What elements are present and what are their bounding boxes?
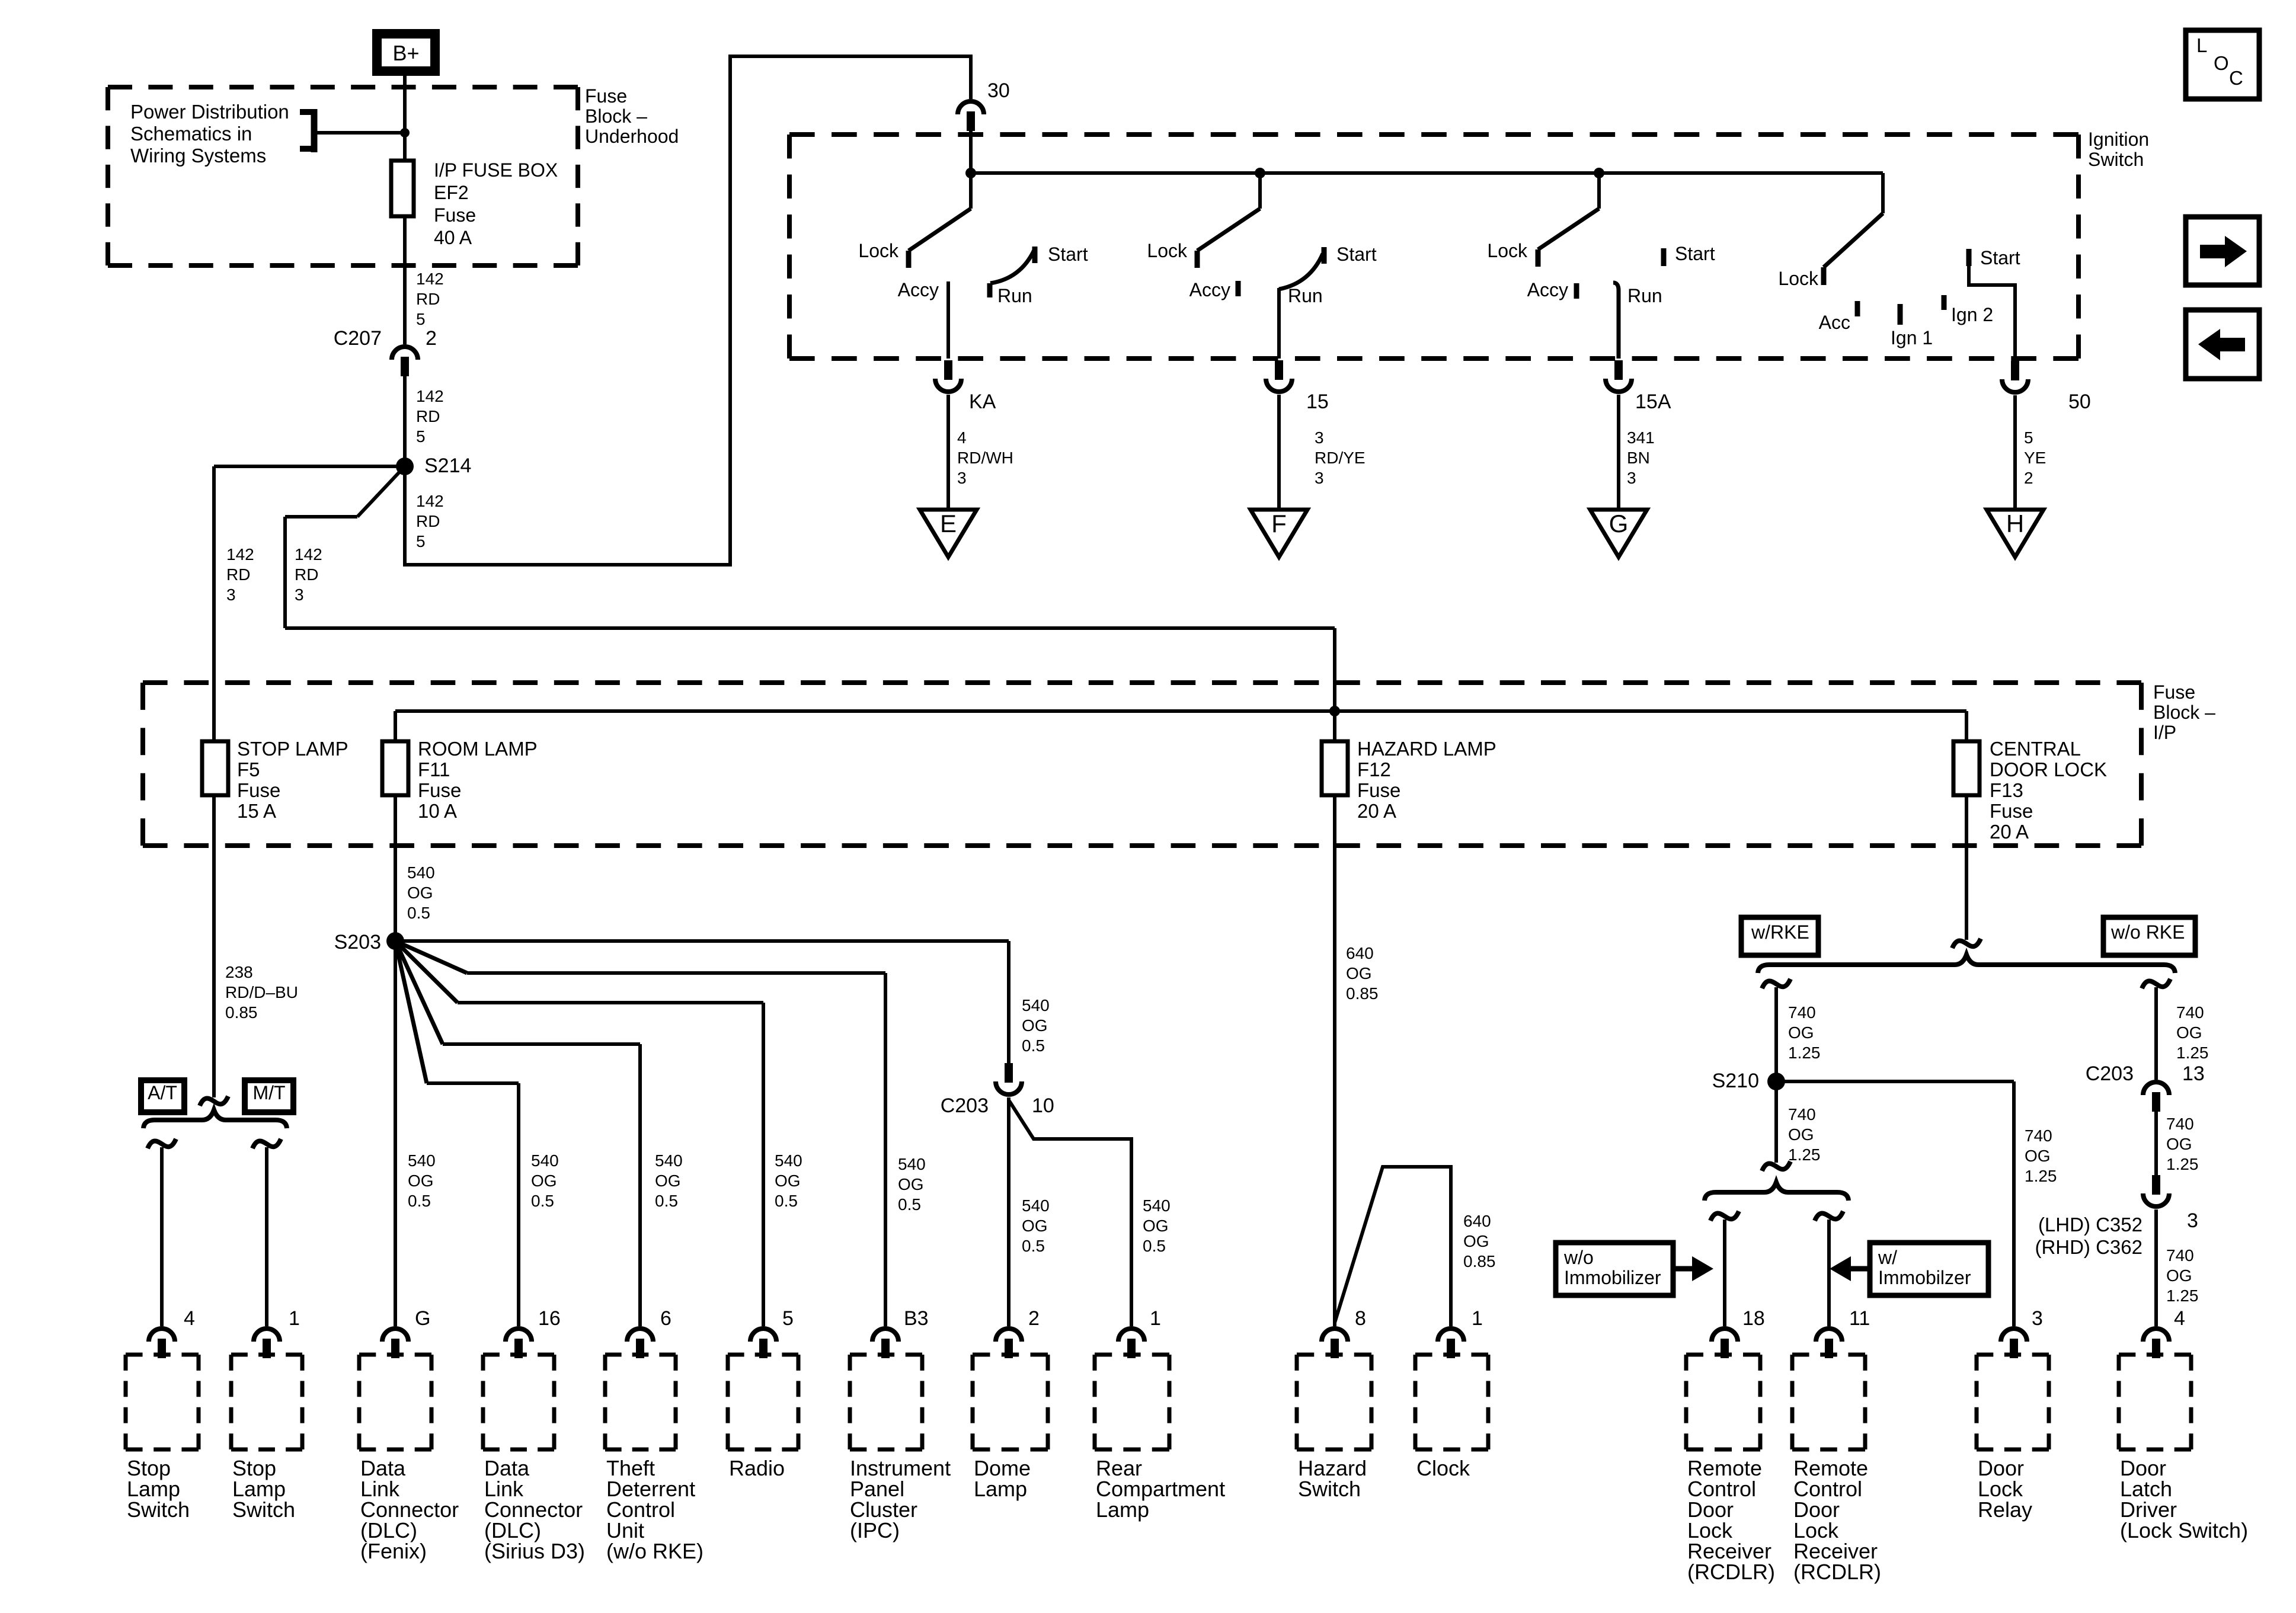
svg-text:RD/YE: RD/YE	[1315, 449, 1366, 467]
svg-text:0.5: 0.5	[408, 1192, 431, 1210]
svg-text:540: 540	[408, 1151, 436, 1170]
svg-text:142: 142	[416, 270, 444, 288]
svg-text:F12: F12	[1357, 759, 1391, 780]
svg-text:Lock: Lock	[1487, 240, 1528, 261]
svg-text:Acc: Acc	[1819, 312, 1850, 333]
svg-text:3: 3	[957, 469, 967, 487]
svg-text:2: 2	[1028, 1307, 1040, 1330]
svg-text:Lamp: Lamp	[1096, 1497, 1149, 1522]
svg-text:O: O	[2214, 52, 2229, 74]
svg-text:(Lock Switch): (Lock Switch)	[2120, 1518, 2248, 1542]
svg-text:142: 142	[416, 387, 444, 405]
svg-text:1.25: 1.25	[2166, 1286, 2199, 1305]
svg-text:OG: OG	[2166, 1135, 2192, 1153]
svg-text:(LHD) C352: (LHD) C352	[2038, 1214, 2142, 1236]
svg-text:(RCDLR): (RCDLR)	[1793, 1560, 1881, 1584]
svg-text:F5: F5	[237, 759, 260, 780]
svg-text:S214: S214	[424, 455, 471, 477]
svg-text:Switch: Switch	[1298, 1477, 1361, 1501]
svg-text:40 A: 40 A	[434, 227, 472, 248]
svg-text:Wiring Systems: Wiring Systems	[130, 145, 266, 167]
svg-text:Fuse: Fuse	[1357, 779, 1400, 801]
svg-text:5: 5	[2024, 428, 2033, 447]
svg-text:S210: S210	[1712, 1070, 1759, 1092]
svg-text:18: 18	[1742, 1307, 1765, 1330]
svg-text:0.5: 0.5	[655, 1192, 678, 1210]
svg-text:Relay: Relay	[1978, 1497, 2032, 1522]
svg-text:OG: OG	[1346, 964, 1372, 982]
svg-text:(Sirius D3): (Sirius D3)	[484, 1539, 585, 1563]
svg-text:4: 4	[957, 428, 967, 447]
svg-text:11: 11	[1849, 1307, 1870, 1330]
svg-text:EF2: EF2	[434, 182, 469, 203]
svg-text:OG: OG	[531, 1172, 557, 1190]
svg-text:L: L	[2196, 34, 2207, 56]
svg-text:OG: OG	[1788, 1125, 1814, 1144]
svg-text:Start: Start	[1980, 247, 2020, 268]
svg-text:Switch: Switch	[127, 1497, 190, 1522]
svg-text:Radio: Radio	[729, 1456, 785, 1480]
svg-text:Accy: Accy	[1527, 279, 1568, 300]
svg-text:F13: F13	[1990, 779, 2023, 801]
svg-text:10: 10	[1032, 1094, 1054, 1117]
svg-text:Schematics in: Schematics in	[130, 123, 252, 145]
svg-text:(RCDLR): (RCDLR)	[1687, 1560, 1775, 1584]
svg-text:OG: OG	[2176, 1023, 2202, 1042]
svg-text:1: 1	[1150, 1307, 1161, 1330]
svg-text:540: 540	[1022, 1196, 1050, 1215]
svg-text:RD: RD	[226, 565, 250, 584]
svg-text:RD/D–BU: RD/D–BU	[225, 983, 298, 1001]
svg-text:Fuse: Fuse	[418, 779, 461, 801]
svg-text:5: 5	[416, 310, 426, 328]
svg-text:F: F	[1271, 510, 1287, 537]
svg-text:2: 2	[2024, 469, 2033, 487]
svg-text:Start: Start	[1675, 243, 1715, 264]
svg-text:20 A: 20 A	[1990, 821, 2029, 843]
svg-text:142: 142	[416, 492, 444, 510]
svg-text:H: H	[2006, 510, 2024, 537]
svg-text:OG: OG	[775, 1172, 801, 1190]
svg-text:4: 4	[184, 1307, 195, 1330]
svg-text:15A: 15A	[1635, 391, 1671, 413]
svg-text:Run: Run	[1627, 285, 1662, 306]
svg-text:6: 6	[660, 1307, 671, 1330]
svg-text:Fuse: Fuse	[434, 204, 476, 226]
svg-text:Ignition: Ignition	[2088, 129, 2149, 150]
svg-text:S203: S203	[334, 931, 381, 953]
svg-text:5: 5	[416, 532, 426, 551]
svg-text:OG: OG	[1143, 1217, 1169, 1235]
svg-text:740: 740	[1788, 1003, 1816, 1022]
svg-text:OG: OG	[1022, 1016, 1048, 1035]
svg-text:540: 540	[531, 1151, 559, 1170]
svg-text:KA: KA	[969, 391, 996, 413]
svg-text:G: G	[1609, 510, 1629, 537]
svg-text:Clock: Clock	[1416, 1456, 1470, 1480]
svg-text:3: 3	[226, 585, 236, 604]
svg-text:2: 2	[426, 327, 437, 350]
svg-text:1.25: 1.25	[2166, 1155, 2199, 1173]
svg-text:Immobilizer: Immobilizer	[1564, 1267, 1661, 1288]
svg-text:C203: C203	[941, 1094, 989, 1117]
svg-text:740: 740	[2166, 1115, 2194, 1133]
svg-text:341: 341	[1627, 428, 1655, 447]
svg-text:0.5: 0.5	[531, 1192, 554, 1210]
svg-text:640: 640	[1346, 944, 1374, 962]
svg-text:0.5: 0.5	[1143, 1237, 1166, 1255]
svg-text:0.5: 0.5	[407, 904, 430, 922]
svg-text:1.25: 1.25	[2176, 1044, 2209, 1062]
svg-text:3: 3	[1627, 469, 1636, 487]
svg-text:w/RKE: w/RKE	[1751, 921, 1809, 943]
svg-text:540: 540	[407, 863, 435, 882]
svg-text:1.25: 1.25	[1788, 1145, 1821, 1164]
svg-text:C: C	[2229, 67, 2243, 89]
svg-text:0.5: 0.5	[775, 1192, 798, 1210]
svg-text:(IPC): (IPC)	[850, 1518, 900, 1542]
svg-text:OG: OG	[2025, 1147, 2051, 1165]
svg-text:OG: OG	[898, 1175, 924, 1193]
svg-text:Run: Run	[997, 285, 1032, 306]
svg-text:Ign 1: Ign 1	[1891, 327, 1933, 348]
svg-text:20 A: 20 A	[1357, 800, 1396, 822]
svg-text:15: 15	[1306, 391, 1329, 413]
svg-text:w/o RKE: w/o RKE	[2110, 921, 2185, 943]
svg-text:5: 5	[416, 427, 426, 446]
svg-text:Ign 2: Ign 2	[1951, 304, 1993, 325]
svg-text:740: 740	[2166, 1246, 2194, 1265]
svg-text:F11: F11	[418, 759, 450, 780]
svg-text:540: 540	[655, 1151, 683, 1170]
svg-text:Fuse: Fuse	[237, 779, 280, 801]
svg-text:540: 540	[775, 1151, 802, 1170]
svg-text:3: 3	[1315, 428, 1324, 447]
svg-text:STOP LAMP: STOP LAMP	[237, 738, 348, 760]
svg-text:BN: BN	[1627, 449, 1650, 467]
svg-text:0.5: 0.5	[1022, 1036, 1045, 1055]
svg-text:Lock: Lock	[1778, 268, 1819, 289]
svg-text:I/P: I/P	[2153, 722, 2176, 743]
svg-text:13: 13	[2182, 1062, 2205, 1085]
svg-text:540: 540	[1022, 996, 1050, 1014]
svg-text:RD/WH: RD/WH	[957, 449, 1013, 467]
svg-text:OG: OG	[1022, 1217, 1048, 1235]
svg-text:540: 540	[1143, 1196, 1171, 1215]
svg-text:OG: OG	[1463, 1232, 1489, 1250]
svg-text:G: G	[415, 1307, 430, 1330]
svg-text:Accy: Accy	[898, 279, 939, 300]
svg-text:OG: OG	[407, 884, 433, 902]
svg-text:740: 740	[1788, 1105, 1816, 1124]
svg-text:3: 3	[295, 585, 304, 604]
svg-text:1: 1	[289, 1307, 300, 1330]
svg-text:Switch: Switch	[232, 1497, 295, 1522]
svg-text:ROOM LAMP: ROOM LAMP	[418, 738, 538, 760]
svg-text:Block –: Block –	[2153, 702, 2215, 723]
svg-text:YE: YE	[2024, 449, 2046, 467]
svg-text:DOOR LOCK: DOOR LOCK	[1990, 759, 2107, 780]
svg-text:(RHD) C362: (RHD) C362	[2035, 1236, 2142, 1258]
svg-text:10 A: 10 A	[418, 800, 457, 822]
svg-text:142: 142	[295, 545, 322, 564]
svg-text:C203: C203	[2086, 1062, 2134, 1085]
svg-text:Block –: Block –	[585, 105, 647, 127]
svg-text:1.25: 1.25	[2025, 1167, 2057, 1185]
svg-text:RD: RD	[295, 565, 318, 584]
svg-text:B+: B+	[392, 41, 419, 65]
svg-text:Run: Run	[1288, 285, 1323, 306]
svg-text:1: 1	[1472, 1307, 1483, 1330]
svg-text:E: E	[940, 510, 957, 537]
svg-text:(w/o RKE): (w/o RKE)	[606, 1539, 703, 1563]
svg-text:0.5: 0.5	[898, 1195, 921, 1214]
svg-text:Power Distribution: Power Distribution	[130, 101, 289, 123]
svg-text:Fuse: Fuse	[585, 85, 627, 107]
svg-text:30: 30	[987, 79, 1010, 102]
svg-text:C207: C207	[334, 327, 382, 350]
svg-text:Switch: Switch	[2088, 149, 2144, 170]
svg-text:Immobilzer: Immobilzer	[1878, 1267, 1971, 1288]
svg-text:1.25: 1.25	[1788, 1044, 1821, 1062]
svg-text:OG: OG	[1788, 1023, 1814, 1042]
svg-text:3: 3	[1315, 469, 1324, 487]
svg-text:RD: RD	[416, 512, 440, 530]
svg-text:CENTRAL: CENTRAL	[1990, 738, 2081, 760]
svg-text:Lock: Lock	[858, 240, 899, 261]
svg-text:B3: B3	[904, 1307, 929, 1330]
svg-text:3: 3	[2187, 1209, 2198, 1232]
svg-text:238: 238	[225, 963, 253, 981]
svg-text:Fuse: Fuse	[2153, 681, 2195, 703]
svg-text:Lamp: Lamp	[974, 1477, 1027, 1501]
svg-text:0.85: 0.85	[1463, 1252, 1496, 1270]
svg-text:Lock: Lock	[1147, 240, 1188, 261]
svg-text:5: 5	[782, 1307, 794, 1330]
svg-text:M/T: M/T	[252, 1082, 285, 1103]
svg-text:Accy: Accy	[1189, 279, 1230, 300]
svg-text:740: 740	[2025, 1126, 2052, 1145]
svg-text:0.85: 0.85	[225, 1003, 258, 1022]
svg-text:3: 3	[2032, 1307, 2043, 1330]
svg-text:Fuse: Fuse	[1990, 800, 2033, 822]
svg-text:640: 640	[1463, 1212, 1491, 1230]
svg-text:Start: Start	[1336, 244, 1377, 265]
svg-text:w/: w/	[1878, 1247, 1897, 1268]
svg-text:0.5: 0.5	[1022, 1237, 1045, 1255]
svg-text:8: 8	[1355, 1307, 1366, 1330]
svg-text:(Fenix): (Fenix)	[360, 1539, 427, 1563]
svg-text:16: 16	[538, 1307, 561, 1330]
svg-text:Underhood: Underhood	[585, 126, 679, 147]
svg-text:OG: OG	[2166, 1266, 2192, 1285]
svg-text:142: 142	[226, 545, 254, 564]
svg-text:HAZARD LAMP: HAZARD LAMP	[1357, 738, 1496, 760]
svg-text:A/T: A/T	[148, 1082, 177, 1103]
svg-text:0.85: 0.85	[1346, 984, 1379, 1003]
svg-text:Start: Start	[1048, 244, 1088, 265]
svg-text:740: 740	[2176, 1003, 2204, 1022]
svg-text:15 A: 15 A	[237, 800, 276, 822]
svg-text:w/o: w/o	[1563, 1247, 1594, 1268]
svg-text:50: 50	[2068, 391, 2091, 413]
svg-text:4: 4	[2174, 1307, 2185, 1330]
svg-text:540: 540	[898, 1155, 926, 1173]
svg-text:RD: RD	[416, 407, 440, 425]
svg-text:OG: OG	[655, 1172, 681, 1190]
svg-text:RD: RD	[416, 290, 440, 308]
svg-text:I/P FUSE BOX: I/P FUSE BOX	[434, 159, 558, 181]
svg-text:OG: OG	[408, 1172, 434, 1190]
